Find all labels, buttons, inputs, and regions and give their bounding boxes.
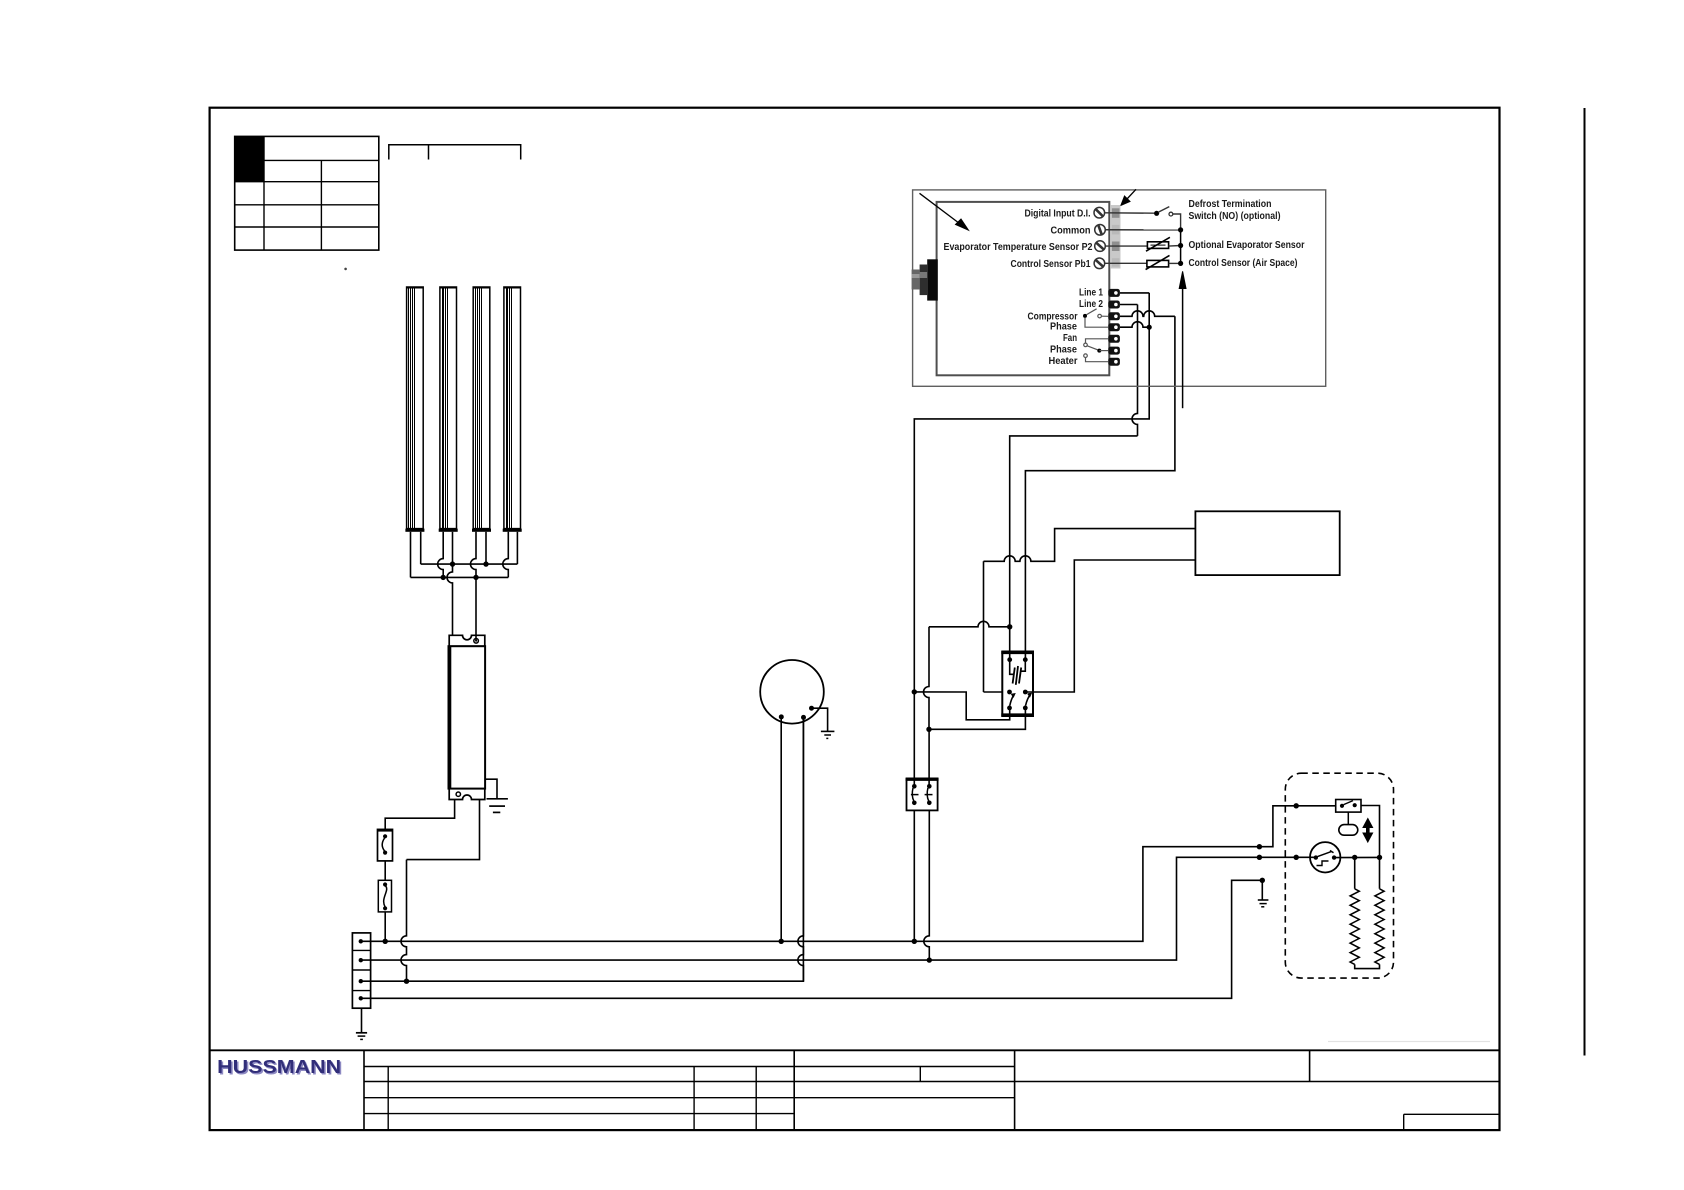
fan motor terminal 2 bbox=[801, 715, 806, 720]
ground defrost heater circuit bbox=[1258, 900, 1269, 907]
svg-text:Fan: Fan bbox=[1063, 333, 1077, 344]
wire start contact drop bbox=[924, 627, 929, 730]
wire lamp2 right lead bbox=[452, 532, 454, 564]
wire P2 to thermistor bbox=[1105, 245, 1147, 247]
wire thermostat lower run bbox=[1025, 560, 1195, 692]
sheet border frame bbox=[210, 108, 1500, 1130]
svg-text:Line 2: Line 2 bbox=[1079, 299, 1103, 310]
wire compressor lead to start relay bbox=[913, 692, 915, 786]
junction R1 top bbox=[1352, 855, 1357, 860]
wire fan ground stub bbox=[812, 708, 828, 731]
junction bus D ground bbox=[1260, 878, 1265, 883]
terminal Fan (term) bbox=[1108, 335, 1120, 343]
svg-text:Defrost Termination: Defrost Termination bbox=[1189, 199, 1272, 210]
lamp LED strip 2 bbox=[439, 287, 458, 532]
wire lamp1 left lead bbox=[410, 532, 412, 578]
wire lamp4 right lead bbox=[516, 532, 518, 564]
ballast body thick left edge bbox=[448, 646, 451, 788]
junction lamp bus lower / lamp2 bbox=[441, 575, 446, 580]
wire bus B (neutral feed) bbox=[361, 857, 1316, 960]
wire start-drop to start relay bbox=[928, 729, 930, 786]
wire pressure control to heaters bbox=[1334, 856, 1379, 858]
wire bus D ground stem bbox=[1261, 880, 1263, 900]
wire sensor common vertical bbox=[1180, 230, 1182, 264]
wire L2 drop bbox=[1132, 305, 1138, 436]
wire fan terminal1 to bus A bbox=[780, 717, 782, 941]
controller fan relay contact bbox=[1084, 339, 1109, 362]
screw terminal Common bbox=[1095, 225, 1106, 236]
wire Line1 out bbox=[1120, 292, 1149, 294]
junction bus A inside defrost box bbox=[1294, 803, 1299, 808]
wire ballast out right bbox=[407, 800, 480, 860]
defrost thermostat box bbox=[1195, 511, 1339, 575]
svg-text:Switch (NO) (optional): Switch (NO) (optional) bbox=[1189, 211, 1281, 222]
fan motor terminal 1 bbox=[779, 714, 784, 719]
junction relay top-left branch bbox=[1007, 624, 1012, 629]
wire ballast ground stub bbox=[485, 779, 497, 799]
ballast top mounting tab bbox=[449, 635, 485, 646]
wire Common to node bbox=[1105, 229, 1180, 231]
callout arrow upper-left bbox=[920, 193, 969, 230]
defrost heater assembly dashed box bbox=[1285, 773, 1393, 978]
junction bus C / ballast return bbox=[404, 979, 409, 984]
wire L1/phase drop to compressor circuit bbox=[914, 293, 1149, 692]
wire R1 drop bbox=[1354, 857, 1356, 888]
ballast top tab screw bbox=[474, 639, 479, 644]
svg-text:Line 1: Line 1 bbox=[1079, 288, 1103, 299]
callout arrow terminal strip bbox=[1121, 189, 1136, 205]
junction bus A branch bbox=[1257, 844, 1262, 849]
fan motor M1 bbox=[760, 660, 824, 724]
svg-text:Digital Input D.I.: Digital Input D.I. bbox=[1025, 208, 1091, 219]
svg-text:Control Sensor (Air Space): Control Sensor (Air Space) bbox=[1189, 258, 1298, 269]
svg-text:Control Sensor Pb1: Control Sensor Pb1 bbox=[1011, 259, 1091, 270]
double arrow symbol bbox=[1363, 819, 1373, 843]
junction bus A / fan lead bbox=[779, 939, 784, 944]
dimension bracket bbox=[389, 145, 521, 160]
pressure control switch bbox=[1310, 842, 1340, 872]
wire lamp bus upper to ballast bbox=[447, 564, 453, 635]
thermistor control sensor bbox=[1146, 255, 1170, 269]
wire relay feed into box bbox=[984, 691, 1003, 693]
heater resistor R2 bbox=[1375, 889, 1384, 965]
terminal strip mid segment 2 bbox=[1112, 258, 1120, 267]
terminal strip mid segment bbox=[1112, 225, 1120, 235]
junction compressor drop / relay feed bbox=[912, 689, 917, 694]
wire lamp bus lower to ballast bbox=[475, 577, 477, 640]
wire heater bottoms bbox=[1355, 964, 1380, 968]
air space arrow bbox=[1179, 271, 1186, 408]
junction R2 / control bbox=[1377, 855, 1382, 860]
wire lamp bus upper bbox=[421, 563, 518, 565]
wire L2 drop horizontal to relay top bbox=[1010, 436, 1138, 660]
terminal Line 2 bbox=[1108, 301, 1120, 309]
terminal Compressor (term) bbox=[1108, 312, 1120, 320]
junction lamp bus lower / lamp3 bbox=[473, 575, 478, 580]
ground ballast bbox=[487, 799, 508, 813]
ground fan motor bbox=[821, 731, 835, 738]
svg-text:Optional Evaporator Sensor: Optional Evaporator Sensor bbox=[1189, 240, 1305, 251]
junction bus B / compressor lead bbox=[927, 957, 932, 962]
screw terminal P2 bbox=[1095, 241, 1106, 252]
defrost termination switch contact bbox=[1154, 207, 1173, 216]
ballast bottom tab screw bbox=[456, 792, 460, 796]
wire thermostat upper run bbox=[984, 529, 1196, 562]
wire bus D (ground bus) bbox=[361, 880, 1263, 998]
controller inner box bbox=[937, 202, 1110, 375]
terminal Phase2 (term) bbox=[1108, 347, 1120, 355]
page right edge line bbox=[1584, 108, 1586, 1056]
wire thermistor to node bbox=[1169, 245, 1181, 248]
wire lamp3 right lead bbox=[485, 532, 487, 564]
wire S2 to bus A bbox=[384, 912, 386, 941]
solenoid stem bbox=[1347, 812, 1349, 825]
wire lamp bus lower bbox=[411, 576, 509, 578]
svg-text:Phase: Phase bbox=[1050, 345, 1077, 356]
terminal strip dark segment 2 bbox=[1112, 242, 1120, 252]
wire bus A (line feed) bbox=[361, 806, 1336, 942]
junction bus A / S2 wire bbox=[383, 939, 388, 944]
terminal strip dark segment 1 bbox=[1112, 208, 1120, 218]
screw terminal D.I. bbox=[1094, 207, 1105, 218]
junction bus B branch bbox=[1257, 855, 1262, 860]
svg-text:Evaporator Temperature Sensor: Evaporator Temperature Sensor P2 bbox=[944, 242, 1093, 253]
svg-text:HUSSMANN: HUSSMANN bbox=[217, 1056, 341, 1077]
legend table black cell bbox=[235, 136, 264, 181]
junction lamp bus upper / lamp2 bbox=[450, 561, 455, 566]
wire start contact to relay bbox=[929, 708, 1025, 729]
ballast body bbox=[449, 646, 486, 788]
wire start relay right to bus B bbox=[924, 810, 930, 960]
wire Line2 out bbox=[1120, 304, 1138, 306]
junction evaporator sensor node bbox=[1178, 243, 1183, 248]
lamp LED strip 4 bbox=[503, 287, 522, 532]
wire termination switch to heater R2 bbox=[1361, 806, 1380, 889]
stray dot bbox=[344, 268, 347, 271]
wire relay coil feed left bbox=[914, 692, 1009, 720]
wire compressor terminal drop bbox=[1025, 316, 1175, 659]
heater resistor R1 bbox=[1350, 889, 1359, 965]
junction control sensor node bbox=[1178, 261, 1183, 266]
lamp LED strip 3 bbox=[472, 287, 491, 532]
compressor start relay K2 bbox=[906, 778, 939, 810]
terminal block TB1 (4-position) bbox=[352, 933, 370, 1008]
HUSSMANN logo bbox=[217, 1056, 342, 1078]
svg-text:Common: Common bbox=[1051, 225, 1091, 236]
wire S1 to S2 bbox=[384, 861, 386, 880]
wire lamp3 left lead bbox=[471, 532, 477, 578]
wire Compressor out bbox=[1120, 311, 1175, 317]
ballast bottom mounting tab bbox=[449, 789, 485, 800]
wire defrost switch to common node bbox=[1173, 214, 1181, 230]
junction common node bbox=[1178, 227, 1183, 232]
wire lamp4 left lead bbox=[503, 532, 509, 578]
wire TB1 ground stem bbox=[361, 1008, 363, 1032]
wire bus C (fan return) bbox=[361, 717, 804, 981]
terminal Line 1 bbox=[1108, 289, 1120, 297]
terminal strip gray bar bbox=[1111, 205, 1121, 269]
wire thermistor to node 2 bbox=[1169, 262, 1181, 264]
wire fan terminal2 to bus C bbox=[798, 717, 803, 981]
switch S1 (lamp door switch) bbox=[378, 829, 393, 861]
svg-text:Heater: Heater bbox=[1049, 356, 1078, 367]
junction bus A / compressor lead bbox=[912, 939, 917, 944]
wire start relay left to bus A bbox=[913, 810, 915, 941]
wire thermostat upper link bbox=[983, 561, 985, 692]
junction phase/line1 bbox=[1147, 325, 1152, 330]
controller outer frame bbox=[913, 190, 1326, 386]
wire ballast return vertical bbox=[401, 860, 406, 982]
terminal Heater (term) bbox=[1108, 358, 1120, 366]
wire ballast out left bbox=[385, 800, 454, 830]
solenoid bulb bbox=[1339, 825, 1358, 836]
ground TB1 bbox=[356, 1033, 367, 1040]
controller compressor relay contact bbox=[1083, 309, 1108, 327]
junction start contact drop bbox=[926, 727, 931, 732]
thermistor optional evaporator sensor bbox=[1146, 237, 1170, 251]
legend table bbox=[235, 136, 379, 250]
controller probe connector bbox=[912, 259, 938, 300]
junction bus B inside defrost box bbox=[1294, 855, 1299, 860]
defrost termination switch bbox=[1336, 800, 1361, 813]
switch S2 (thermal protector) bbox=[378, 880, 391, 912]
wire relay branch left bbox=[929, 621, 1010, 627]
wire Phase out bbox=[1120, 322, 1149, 328]
relay K1 with overload protector bbox=[1001, 652, 1034, 717]
fan motor terminal 3 bbox=[809, 706, 814, 711]
wire D.I. to defrost switch bbox=[1105, 212, 1155, 214]
lamp LED strip 1 bbox=[405, 287, 424, 532]
svg-text:Phase: Phase bbox=[1050, 321, 1077, 332]
wire lamp2 left lead bbox=[438, 532, 443, 578]
wire Pb1 to thermistor bbox=[1105, 262, 1147, 264]
screw terminal Pb1 bbox=[1094, 258, 1105, 269]
terminal Phase (term) bbox=[1108, 323, 1120, 331]
junction lamp bus upper / lamp3 bbox=[483, 561, 488, 566]
wire lamp1 right lead bbox=[420, 532, 422, 564]
title block grid bbox=[210, 1042, 1500, 1131]
